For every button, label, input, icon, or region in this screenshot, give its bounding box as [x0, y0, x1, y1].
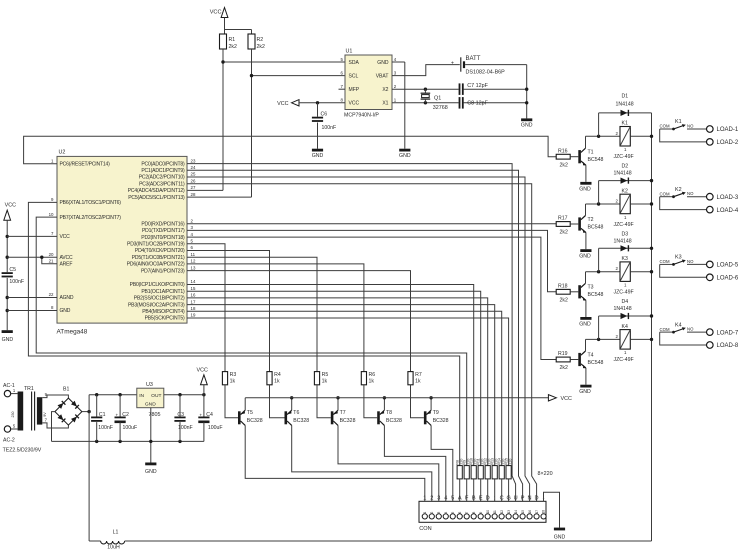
- wire PB3 to segment resistor R13: [187, 305, 495, 466]
- svg-text:MCP7940N-I/P: MCP7940N-I/P: [344, 113, 379, 119]
- svg-text:R1: R1: [229, 37, 236, 43]
- svg-text:12: 12: [500, 510, 504, 514]
- svg-text:LOAD-1: LOAD-1: [717, 127, 739, 133]
- svg-text:1k: 1k: [274, 379, 280, 385]
- terminal LOAD-8: [707, 342, 714, 349]
- svg-text:2k2: 2k2: [560, 230, 568, 236]
- ground at C6: [317, 123, 319, 149]
- svg-text:VCC: VCC: [277, 101, 288, 107]
- svg-text:GND: GND: [579, 254, 591, 260]
- svg-text:16: 16: [528, 510, 532, 514]
- svg-text:JZC-49F: JZC-49F: [614, 290, 634, 296]
- svg-text:OUT: OUT: [151, 393, 161, 399]
- svg-text:2: 2: [430, 496, 433, 502]
- wire COM contact to LOAD-6: [660, 264, 707, 277]
- svg-text:220: 220: [509, 459, 513, 465]
- wire R5 to T7 base: [317, 385, 331, 418]
- wire PB5 to segment resistor R15: [187, 318, 509, 466]
- svg-text:R18: R18: [558, 283, 568, 289]
- wire NO contact to LOAD-5: [687, 263, 707, 265]
- svg-text:1k: 1k: [230, 379, 236, 385]
- resistor R7 1k: [408, 372, 413, 385]
- wire T3 collector to K3 coil and D3: [585, 272, 587, 284]
- wire PD7 down to R7: [187, 271, 411, 372]
- svg-text:VCC: VCC: [349, 101, 360, 107]
- svg-text:25: 25: [191, 172, 196, 177]
- svg-text:9: 9: [479, 512, 483, 514]
- svg-text:26: 26: [191, 178, 196, 183]
- svg-text:GND: GND: [2, 337, 14, 343]
- transistor T7 BC328 (PNP): [331, 411, 334, 424]
- svg-text:1: 1: [423, 512, 427, 514]
- wire T7 emitter to VCC rail: [337, 398, 339, 410]
- svg-text:8×220: 8×220: [538, 471, 553, 477]
- bridge diode lower-right: [71, 415, 79, 423]
- svg-text:AC-2: AC-2: [3, 438, 15, 444]
- transistor T9 BC328 (PNP): [424, 411, 427, 424]
- wire R3 to T5 base: [225, 385, 238, 418]
- svg-text:PD5(T1/OC0B/PCINT21): PD5(T1/OC0B/PCINT21): [132, 255, 185, 261]
- svg-text:PB3(MOSI/OC2A/PCINT3): PB3(MOSI/OC2A/PCINT3): [128, 302, 185, 308]
- svg-text:R6: R6: [369, 372, 376, 378]
- resistor R12 220 (segment): [485, 466, 490, 479]
- wire COM contact to LOAD-2: [660, 129, 707, 142]
- resistor R9 220 (segment): [464, 466, 469, 479]
- svg-text:R19: R19: [558, 351, 568, 357]
- resistor R16 2k2: [556, 154, 570, 159]
- svg-text:X2: X2: [382, 87, 388, 93]
- svg-text:GND: GND: [554, 534, 566, 540]
- svg-text:T6: T6: [293, 410, 299, 416]
- svg-text:AVCC: AVCC: [60, 255, 73, 261]
- svg-text:R4: R4: [274, 372, 281, 378]
- svg-text:K3: K3: [675, 255, 682, 261]
- svg-text:N: N: [528, 496, 532, 502]
- svg-text:PB4(MISO/PCINT4): PB4(MISO/PCINT4): [142, 309, 185, 315]
- wire to U2.VCC pin 7: [6, 235, 9, 238]
- svg-text:T7: T7: [340, 410, 346, 416]
- svg-text:BATT: BATT: [466, 56, 481, 62]
- wire U1.X2 to crystal and C7: [392, 88, 459, 90]
- svg-text:PB5(SCK/PCINT5): PB5(SCK/PCINT5): [145, 316, 185, 322]
- svg-text:F: F: [465, 496, 469, 502]
- svg-text:2: 2: [430, 512, 434, 514]
- svg-text:GND: GND: [145, 402, 156, 408]
- wire RESET net: U2 pin1 up and across to R16: [24, 136, 557, 163]
- wire U1.X1 to crystal and C8: [392, 102, 459, 104]
- svg-text:AGND: AGND: [60, 295, 74, 301]
- wire R7 to T9 base: [411, 385, 424, 418]
- svg-text:IN: IN: [139, 393, 144, 399]
- wire PD3 down to R3: [187, 244, 225, 372]
- op-amp U2 MCU ATmega48 box: [57, 156, 187, 323]
- capacitor C6 100nF (U1 decoupling): [316, 101, 319, 104]
- svg-text:PC6(/RESET/PCINT14): PC6(/RESET/PCINT14): [60, 161, 111, 167]
- svg-text:NO: NO: [687, 124, 694, 129]
- svg-text:100nF: 100nF: [98, 425, 113, 431]
- svg-text:COM: COM: [660, 327, 670, 332]
- resistor R5 1k: [314, 372, 319, 385]
- svg-text:NO: NO: [687, 259, 694, 264]
- wire raw + rail to U3 IN: [89, 394, 137, 396]
- svg-text:2k2: 2k2: [560, 162, 568, 168]
- svg-text:1k: 1k: [415, 379, 421, 385]
- transistor T5 BC328 (PNP): [238, 411, 241, 424]
- resistor R17 2k2: [556, 222, 570, 227]
- svg-text:PD0(RXD/PCINT16): PD0(RXD/PCINT16): [141, 221, 185, 227]
- svg-text:5: 5: [451, 496, 454, 502]
- svg-text:2k2: 2k2: [257, 44, 265, 50]
- svg-text:17: 17: [535, 510, 539, 514]
- resistor R14 220 (segment): [499, 466, 504, 479]
- svg-text:PD1(TXD/PCINT17): PD1(TXD/PCINT17): [142, 228, 185, 234]
- svg-text:BC548: BC548: [588, 224, 604, 230]
- svg-text:D4: D4: [622, 299, 629, 305]
- wire CON minus pin to GND: [544, 492, 560, 527]
- svg-text:10uH: 10uH: [107, 545, 120, 551]
- svg-text:COM: COM: [660, 259, 670, 264]
- crystal Q1 32768: [424, 88, 427, 91]
- svg-text:U3: U3: [146, 382, 153, 388]
- svg-text:6: 6: [458, 512, 462, 514]
- svg-text:R2: R2: [257, 37, 264, 43]
- svg-text:18: 18: [542, 510, 546, 514]
- svg-text:2k2: 2k2: [229, 44, 237, 50]
- wire R14 to CON: [501, 479, 503, 501]
- svg-text:PB2(SS/OC1B/PCINT2): PB2(SS/OC1B/PCINT2): [134, 296, 185, 302]
- svg-text:+: +: [199, 413, 202, 418]
- wire PC2 to CON pin N (button): [187, 177, 530, 501]
- svg-text:D2: D2: [622, 164, 629, 170]
- svg-text:NO: NO: [687, 327, 694, 332]
- wire NO contact to LOAD-3: [687, 196, 707, 198]
- wire L1 to relay supply vertical: [125, 540, 652, 542]
- bridge diode lower-left: [57, 414, 65, 422]
- wire PD2 to R19: [187, 237, 556, 359]
- svg-text:GND: GND: [60, 308, 71, 314]
- svg-text:17: 17: [191, 299, 196, 304]
- resistor R1 2k2 (SDA pull-up): [220, 34, 227, 49]
- wire T4 collector to K4 coil and D4: [585, 339, 587, 351]
- svg-text:T3: T3: [588, 285, 594, 291]
- wire R4 to T6 base: [270, 385, 285, 418]
- wire VCC rail left of U2: [6, 220, 8, 272]
- wire U3 OUT +5V rail: [164, 394, 204, 396]
- svg-text:LOAD-6: LOAD-6: [717, 276, 739, 282]
- svg-text:GND: GND: [145, 469, 157, 475]
- resistor R15 220 (segment): [506, 466, 511, 479]
- wire T1 collector to K1 coil and D1: [585, 136, 587, 148]
- resistor R2 2k2 (SCL pull-up): [248, 34, 255, 49]
- svg-text:COM: COM: [660, 124, 670, 129]
- svg-text:LOAD-8: LOAD-8: [717, 343, 739, 349]
- svg-text:R3: R3: [230, 372, 237, 378]
- wire VCC emitter rail for T5-T9: [245, 397, 548, 399]
- svg-text:AREF: AREF: [60, 261, 73, 267]
- svg-text:L1: L1: [113, 530, 119, 536]
- svg-text:B: B: [472, 496, 476, 502]
- wire VCC arrow down to R1/R2 split: [224, 18, 226, 35]
- svg-text:18: 18: [191, 306, 196, 311]
- svg-text:10: 10: [486, 510, 490, 514]
- svg-text:BC328: BC328: [386, 418, 402, 424]
- wire PD6 down to R6: [187, 264, 364, 372]
- ground at U1.GND pin 4: [392, 61, 405, 63]
- svg-text:19: 19: [191, 313, 196, 318]
- svg-text:15: 15: [191, 286, 196, 291]
- svg-text:JZC-49F: JZC-49F: [614, 357, 634, 363]
- svg-text:GND: GND: [579, 389, 591, 395]
- svg-text:ATmega48: ATmega48: [57, 329, 88, 336]
- svg-text:+: +: [451, 61, 454, 67]
- wire COM contact to LOAD-4: [660, 197, 707, 210]
- resistor R8 220 (segment): [457, 466, 462, 479]
- svg-text:C6: C6: [321, 111, 328, 117]
- svg-text:1N4148: 1N4148: [614, 238, 632, 244]
- transistor T6 BC328 (PNP): [285, 411, 288, 424]
- svg-text:23: 23: [191, 158, 196, 163]
- svg-text:R16: R16: [558, 148, 568, 154]
- svg-text:GND: GND: [399, 153, 411, 159]
- voltage regulator U3 7805: [137, 388, 164, 408]
- svg-text:PC3(ADC3/PCINT11): PC3(ADC3/PCINT11): [139, 181, 185, 187]
- wire PD0 to R17: [187, 223, 556, 225]
- wire NO contact to LOAD-7: [687, 331, 707, 333]
- wire PB0 to segment resistor R10: [187, 285, 474, 466]
- svg-text:14: 14: [191, 279, 196, 284]
- svg-text:K1: K1: [675, 119, 682, 125]
- svg-text:100nF: 100nF: [9, 279, 24, 285]
- svg-text:BC328: BC328: [433, 418, 449, 424]
- svg-text:100nF: 100nF: [178, 425, 193, 431]
- svg-text:+: +: [116, 413, 119, 418]
- connector CON box: [419, 501, 546, 522]
- svg-text:LOAD-4: LOAD-4: [717, 208, 739, 214]
- svg-text:1N4148: 1N4148: [614, 306, 632, 312]
- svg-text:100uF: 100uF: [123, 425, 138, 431]
- svg-text:BC548: BC548: [588, 292, 604, 298]
- svg-text:1N4148: 1N4148: [614, 171, 632, 177]
- svg-text:T1: T1: [588, 150, 594, 156]
- wire U1.VBAT to battery: [392, 65, 460, 76]
- wire GND rail: [52, 440, 204, 442]
- wire R11 to CON: [480, 479, 482, 501]
- svg-text:K2: K2: [622, 188, 628, 194]
- svg-text:4: 4: [444, 496, 447, 502]
- svg-text:VCC: VCC: [5, 203, 16, 209]
- svg-text:1: 1: [423, 496, 426, 502]
- svg-text:X1: X1: [382, 101, 388, 107]
- svg-text:5: 5: [451, 512, 455, 514]
- wire VCC arrow to U1.VCC: [299, 102, 345, 104]
- wire K3 coil to relay supply line: [630, 271, 651, 273]
- resistor R3 1k: [222, 372, 227, 385]
- wire R9 to CON: [466, 479, 468, 501]
- transistor T2 BC548 (NPN): [570, 223, 578, 225]
- svg-text:14: 14: [514, 510, 518, 514]
- svg-text:T2: T2: [588, 217, 594, 223]
- wire battery minus to GND rail at crystal caps: [465, 64, 527, 66]
- svg-text:BC328: BC328: [293, 418, 309, 424]
- svg-text:32768: 32768: [433, 105, 448, 111]
- wire T5 collector to CON pin 1: [245, 425, 425, 501]
- svg-text:E: E: [479, 496, 483, 502]
- svg-text:1N4148: 1N4148: [616, 101, 634, 107]
- svg-text:TR1: TR1: [24, 386, 34, 392]
- svg-text:GND: GND: [521, 123, 533, 129]
- terminal LOAD-1: [707, 126, 714, 133]
- svg-text:13: 13: [507, 510, 511, 514]
- resistor R18 2k2: [556, 289, 570, 294]
- wire T8 collector to CON pin 4: [384, 425, 445, 501]
- svg-text:PB6(XTAL1/TOSC1/PCINT6): PB6(XTAL1/TOSC1/PCINT6): [60, 200, 122, 206]
- power flag VCC (emitter rail, right arrow): [548, 395, 556, 401]
- wire AREF tied to AVCC: [42, 257, 57, 264]
- resistor R10 220 (segment): [471, 466, 476, 479]
- wire T6 collector to CON pin 2: [292, 425, 432, 501]
- svg-text:GND: GND: [579, 321, 591, 327]
- terminal LOAD-2: [707, 139, 714, 146]
- svg-text:Q1: Q1: [434, 96, 441, 102]
- svg-text:15: 15: [521, 510, 525, 514]
- terminal LOAD-7: [707, 329, 714, 336]
- wire T7 collector to CON pin 3: [338, 425, 439, 501]
- svg-text:K3: K3: [622, 256, 628, 262]
- wire PD4 down to R4: [187, 251, 270, 372]
- svg-text:2k2: 2k2: [560, 365, 568, 371]
- svg-text:PB0(ICP1/CLKO/PCINT0): PB0(ICP1/CLKO/PCINT0): [130, 282, 185, 288]
- svg-text:SDA: SDA: [349, 60, 360, 66]
- wire T9 emitter to VCC rail: [430, 398, 432, 410]
- svg-text:VCC: VCC: [210, 10, 222, 16]
- wire K1 coil to relay supply line: [630, 135, 651, 137]
- terminal LOAD-6: [707, 274, 714, 281]
- ground at U3: [150, 408, 152, 463]
- svg-text:T4: T4: [588, 352, 594, 358]
- transistor T1 BC548 (NPN): [570, 156, 578, 158]
- svg-text:GND: GND: [312, 153, 324, 159]
- wire PD5 down to R5: [187, 257, 317, 371]
- svg-text:B1: B1: [63, 387, 69, 393]
- transistor T8 BC328 (PNP): [377, 411, 380, 424]
- transistor T3 BC548 (NPN): [570, 291, 578, 293]
- svg-text:100nF: 100nF: [322, 125, 337, 131]
- resistor R4 1k: [267, 372, 272, 385]
- svg-text:28: 28: [191, 192, 196, 197]
- wire R13 to CON: [494, 479, 496, 501]
- svg-text:JZC-49F: JZC-49F: [614, 154, 634, 160]
- svg-text:SCL: SCL: [349, 73, 359, 79]
- svg-text:230: 230: [11, 412, 15, 418]
- svg-text:K4: K4: [675, 322, 682, 328]
- svg-text:8: 8: [472, 512, 476, 514]
- svg-text:4: 4: [444, 512, 448, 514]
- wire K4 coil to relay supply line: [630, 338, 651, 340]
- svg-text:D1: D1: [622, 93, 629, 99]
- svg-text:PD6(AIN0/OC0A/PCINT22): PD6(AIN0/OC0A/PCINT22): [127, 262, 185, 268]
- wire R10 to CON: [473, 479, 475, 501]
- wire R8 to CON: [459, 479, 461, 501]
- svg-text:PC2(ADC2/PCINT10): PC2(ADC2/PCINT10): [139, 175, 185, 181]
- svg-text:C8 12pF: C8 12pF: [467, 101, 488, 107]
- svg-text:T8: T8: [386, 410, 392, 416]
- svg-text:PB1(OC1A/PCINT1): PB1(OC1A/PCINT1): [141, 289, 185, 295]
- resistor R19 2k2: [556, 357, 570, 362]
- wire T5 emitter to VCC rail: [244, 398, 246, 410]
- svg-text:D: D: [486, 496, 490, 502]
- svg-text:PC5(ADC5/SCL/PCINT13): PC5(ADC5/SCL/PCINT13): [128, 195, 185, 201]
- svg-text:COM: COM: [660, 191, 670, 196]
- svg-text:11: 11: [191, 252, 196, 257]
- wire PB2 to segment resistor R12: [187, 298, 488, 466]
- svg-text:G: G: [506, 496, 510, 502]
- svg-text:LOAD-5: LOAD-5: [717, 263, 739, 269]
- wire to U2.AVCC pin 20: [6, 256, 9, 259]
- svg-text:PC1(ADC1/PCINT9): PC1(ADC1/PCINT9): [141, 168, 185, 174]
- op-amp U1 RTC MCP7940N-I/P box: [345, 55, 392, 110]
- svg-text:21: 21: [49, 258, 54, 263]
- svg-text:1k: 1k: [322, 379, 328, 385]
- svg-text:U1: U1: [346, 49, 353, 55]
- wire SCL net: R2 to U1.SCL and down to U2 pin 28: [251, 49, 253, 197]
- svg-text:13: 13: [191, 265, 196, 270]
- svg-text:PD7(AIN1/PCINT23): PD7(AIN1/PCINT23): [141, 268, 185, 274]
- svg-text:100uF: 100uF: [208, 425, 223, 431]
- wire NO contact to LOAD-1: [687, 128, 707, 130]
- svg-text:PD2(INT0/PCINT18): PD2(INT0/PCINT18): [141, 235, 185, 241]
- svg-text:BC548: BC548: [588, 360, 604, 366]
- svg-text:10: 10: [49, 212, 54, 217]
- svg-text:A: A: [458, 496, 462, 502]
- wire C5 bottom to AGND/GND and ground: [6, 278, 8, 330]
- wire T2 collector to K2 coil and D2: [585, 204, 587, 216]
- svg-text:LOAD-2: LOAD-2: [717, 140, 739, 146]
- svg-text:PC0(ADC0/PCINT8): PC0(ADC0/PCINT8): [141, 161, 185, 167]
- svg-text:BC328: BC328: [340, 418, 356, 424]
- resistor R6 1k: [361, 372, 366, 385]
- wire PD1 to R18: [187, 230, 556, 291]
- svg-text:D3: D3: [622, 231, 629, 237]
- transistor T4 BC548 (NPN): [570, 359, 578, 361]
- wire PC1 to CON pin P (button): [187, 170, 523, 501]
- svg-text:22: 22: [49, 292, 54, 297]
- bridge diode upper-right: [71, 401, 79, 409]
- wire bridge plus up to +rail and down to L1: [82, 411, 89, 413]
- svg-text:TEZ2.5/D230/9V: TEZ2.5/D230/9V: [3, 448, 42, 454]
- ground at T1 emitter: [585, 165, 587, 182]
- svg-text:DS1082-04-B6P: DS1082-04-B6P: [466, 70, 506, 76]
- svg-text:PD4(T0/XCK/PCINT20): PD4(T0/XCK/PCINT20): [135, 248, 185, 254]
- wire PB7 to display segment resistor R9: [36, 217, 467, 466]
- wire PC0 to CON pin U (button): [187, 164, 516, 502]
- wire COM contact to LOAD-8: [660, 332, 707, 345]
- wire T8 emitter to VCC rail: [383, 398, 385, 410]
- bridge diode upper-left: [57, 401, 65, 409]
- wire PC3 to CON pin D (button): [187, 184, 537, 502]
- svg-text:LOAD-7: LOAD-7: [717, 330, 739, 336]
- ground at T2 emitter: [585, 233, 587, 250]
- svg-text:CON: CON: [419, 526, 431, 532]
- wire PB4 to segment resistor R14: [187, 311, 502, 465]
- svg-text:7: 7: [465, 512, 469, 514]
- terminal LOAD-4: [707, 206, 714, 213]
- svg-text:20: 20: [49, 252, 54, 257]
- svg-text:VBAT: VBAT: [376, 73, 389, 79]
- capacitor C7 12pF: [459, 83, 461, 95]
- svg-text:9V: 9V: [43, 412, 47, 417]
- svg-text:NO: NO: [687, 191, 694, 196]
- svg-text:VCC: VCC: [60, 234, 71, 240]
